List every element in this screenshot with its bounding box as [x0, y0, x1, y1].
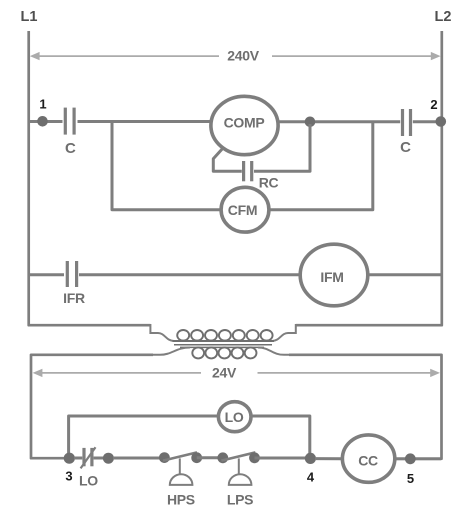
- wire: secondary loop left (to control circuit): [31, 355, 153, 458]
- label 1: [39, 97, 46, 112]
- LPS terminal dot right: [249, 452, 260, 463]
- wire: branch from main rung down to CFM: [112, 122, 222, 210]
- run capacitor RC: [244, 161, 252, 181]
- svg-text:LO: LO: [79, 473, 98, 489]
- junction dot (COMP / RC node): [305, 117, 316, 128]
- wire: LO coil to node 4 (right vertical): [251, 416, 310, 458]
- indoor fan motor IFM: [300, 244, 368, 306]
- pressure switch LPS: [217, 452, 259, 485]
- svg-text:CC: CC: [358, 453, 378, 469]
- label 4: [307, 470, 315, 485]
- svg-text:IFR: IFR: [63, 290, 85, 306]
- left rail L1 with bottom wire: [29, 31, 151, 325]
- HPS terminal dot right: [191, 452, 202, 463]
- contact IFR: [67, 261, 76, 287]
- wire: IFM to L2 rail: [367, 273, 442, 276]
- 24V dimension arrow: [33, 369, 440, 377]
- LPS terminal dot left: [217, 452, 228, 463]
- lockout relay coil LO: [218, 402, 251, 432]
- label 5: [407, 471, 414, 486]
- right rail L2 with bottom wire: [296, 31, 442, 325]
- LPS actuator stem: [238, 458, 240, 474]
- label LO (contact): [79, 473, 98, 489]
- HPS terminal dot left: [159, 452, 170, 463]
- node 4: [305, 453, 316, 464]
- wire: secondary loop right (to control circuit): [289, 355, 442, 459]
- svg-text:CFM: CFM: [228, 202, 257, 218]
- node 3: [64, 453, 75, 464]
- wire: CC coil to node 5: [394, 457, 441, 460]
- svg-text:IFM: IFM: [320, 269, 343, 285]
- svg-text:3: 3: [65, 469, 72, 484]
- svg-text:HPS: HPS: [167, 492, 195, 508]
- wire: node 4 to CC coil: [315, 457, 343, 460]
- wire: node 3 to LO contact: [74, 457, 82, 460]
- wire: LO branch (left vertical + top to LO coil): [69, 416, 219, 458]
- svg-text:2: 2: [430, 97, 437, 112]
- contact C (right run contact): [403, 109, 411, 136]
- svg-text:LO: LO: [225, 409, 244, 425]
- wire: CFM up to main rung: [268, 122, 373, 210]
- label LPS: [227, 492, 253, 508]
- wire: junction dot down to RC right plate: [254, 124, 310, 171]
- transformer secondary lead right: [258, 348, 290, 355]
- label L1: [21, 9, 38, 25]
- label C (right): [400, 139, 411, 156]
- svg-text:RC: RC: [259, 175, 279, 191]
- HPS diaphragm dome: [170, 474, 193, 485]
- label 240V: [227, 48, 259, 64]
- transformer secondary winding: [192, 347, 256, 358]
- wire: LPS to node 4: [255, 457, 311, 460]
- HPS actuator stem: [179, 458, 181, 474]
- svg-text:C: C: [400, 139, 411, 156]
- wire: IFR to IFM: [79, 273, 301, 276]
- label IFR: [63, 290, 85, 306]
- wire: COMP to contact C (right): [277, 120, 400, 123]
- svg-text:L2: L2: [435, 9, 452, 25]
- junction dot after LO contact: [103, 453, 114, 464]
- transformer core: [174, 345, 272, 348]
- wire: L1 rail to contact IFR: [29, 273, 64, 276]
- svg-text:240V: 240V: [227, 48, 259, 64]
- pressure switch HPS: [159, 452, 202, 485]
- label 3: [65, 469, 72, 484]
- wire: contact C to L2 rail: [413, 120, 442, 123]
- contact C (left run contact): [65, 108, 74, 135]
- label 2: [430, 97, 437, 112]
- contact LO (normally closed, with slash): [81, 447, 96, 468]
- svg-text:24V: 24V: [212, 365, 237, 381]
- svg-text:COMP: COMP: [224, 115, 265, 131]
- wire: L1 rail to contact C: [29, 120, 63, 123]
- wire: RC left plate to COMP bottom: [213, 148, 242, 172]
- 240V dimension arrow: [30, 52, 441, 60]
- label L2: [435, 9, 452, 25]
- compressor motor COMP: [211, 96, 278, 154]
- transformer primary lead right: [272, 324, 296, 341]
- LPS blade: [221, 452, 255, 460]
- label HPS: [167, 492, 195, 508]
- wire: contact C to COMP: [78, 120, 213, 123]
- node 1: [37, 116, 48, 127]
- svg-text:L1: L1: [21, 9, 38, 25]
- transformer primary winding: [173, 330, 275, 341]
- condenser fan motor CFM: [221, 187, 269, 232]
- svg-text:LPS: LPS: [227, 492, 253, 508]
- LPS diaphragm dome: [229, 474, 252, 485]
- HPS blade: [163, 452, 197, 460]
- label 24V: [212, 365, 237, 381]
- svg-text:5: 5: [407, 471, 414, 486]
- transformer primary lead left: [150, 324, 174, 341]
- svg-text:4: 4: [307, 470, 315, 485]
- wire: HPS to LPS: [197, 456, 223, 459]
- contactor coil CC: [342, 435, 394, 482]
- wire: junction to HPS: [113, 457, 160, 460]
- svg-text:1: 1: [39, 97, 46, 112]
- svg-text:C: C: [65, 140, 76, 157]
- wire: LO contact to junction: [94, 457, 104, 460]
- label C (left): [65, 140, 76, 157]
- node 2: [436, 116, 447, 127]
- label RC: [259, 175, 279, 191]
- transformer secondary lead left: [152, 348, 190, 355]
- node 5: [405, 453, 416, 464]
